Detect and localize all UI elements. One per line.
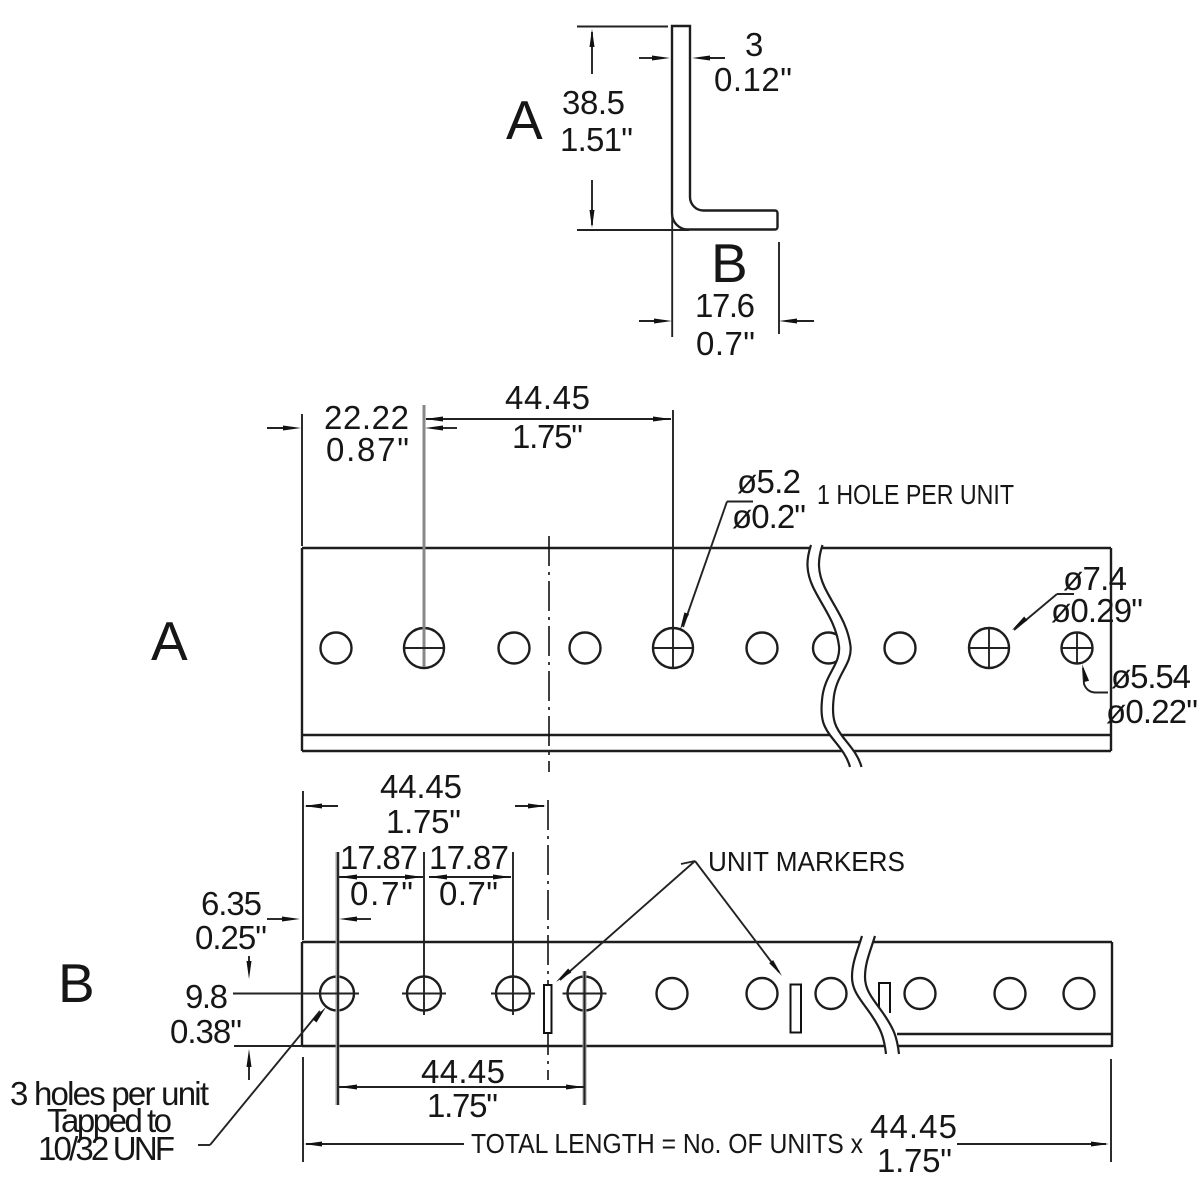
svg-text:0.7": 0.7": [350, 875, 413, 912]
svg-text:0.7": 0.7": [439, 875, 498, 912]
svg-text:0.87": 0.87": [326, 431, 409, 468]
svg-text:0.7": 0.7": [696, 325, 755, 362]
svg-text:0.25": 0.25": [195, 919, 267, 956]
svg-text:0.12": 0.12": [714, 61, 792, 98]
svg-text:TOTAL LENGTH = No. OF UNITS x: TOTAL LENGTH = No. OF UNITS x: [471, 1128, 863, 1159]
svg-text:38.5: 38.5: [562, 84, 625, 121]
svg-text:10/32 UNF: 10/32 UNF: [38, 1130, 175, 1167]
svg-text:17.6: 17.6: [695, 287, 755, 324]
svg-text:B: B: [711, 232, 748, 294]
svg-text:44.45: 44.45: [505, 379, 590, 416]
svg-text:6.35: 6.35: [201, 885, 262, 922]
svg-text:44.45: 44.45: [421, 1053, 505, 1090]
svg-text:0.38": 0.38": [170, 1013, 242, 1050]
svg-text:1.75": 1.75": [512, 418, 583, 455]
svg-text:3: 3: [745, 26, 763, 63]
svg-text:44.45: 44.45: [870, 1108, 957, 1145]
svg-text:A: A: [151, 610, 188, 672]
svg-text:1.51": 1.51": [560, 121, 633, 158]
svg-text:A: A: [506, 89, 543, 151]
svg-text:17.87: 17.87: [340, 839, 418, 876]
svg-text:1.75": 1.75": [386, 803, 461, 840]
svg-text:ø0.29": ø0.29": [1051, 592, 1143, 629]
svg-text:B: B: [58, 952, 95, 1014]
svg-text:UNIT MARKERS: UNIT MARKERS: [708, 846, 905, 877]
svg-text:44.45: 44.45: [380, 768, 462, 805]
svg-text:17.87: 17.87: [429, 839, 509, 876]
svg-text:ø0.2": ø0.2": [732, 498, 806, 535]
svg-text:ø5.2: ø5.2: [737, 463, 801, 500]
svg-text:9.8: 9.8: [185, 978, 228, 1015]
svg-text:ø0.22": ø0.22": [1106, 693, 1198, 730]
svg-text:1.75": 1.75": [427, 1087, 498, 1124]
svg-text:1.75": 1.75": [877, 1142, 952, 1179]
svg-text:1 HOLE PER UNIT: 1 HOLE PER UNIT: [817, 479, 1014, 510]
svg-text:ø5.54: ø5.54: [1111, 658, 1191, 695]
